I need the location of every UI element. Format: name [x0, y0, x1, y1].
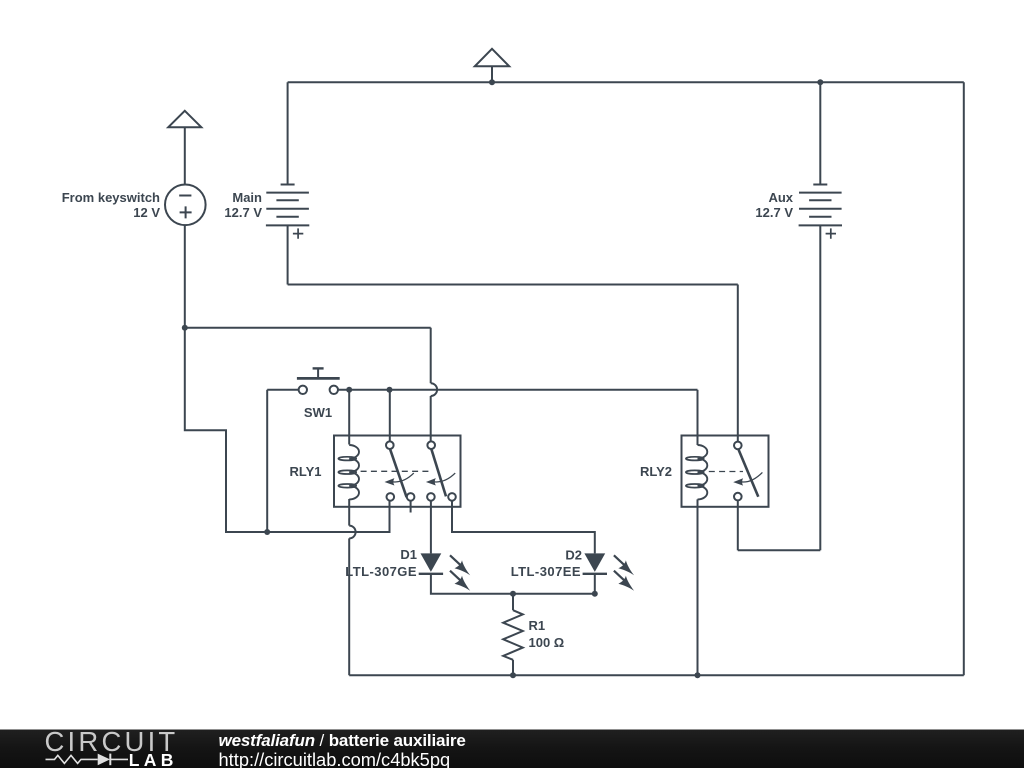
- RLY1 pins: [386, 441, 394, 449]
- footer logo squiggle: [46, 754, 129, 766]
- wire RLY1 coil bottom upper: [348, 499, 350, 526]
- wire SW1 left drop: [266, 390, 268, 532]
- wire Main to RLY2 common horizontal: [288, 284, 738, 286]
- wire bottom ground rail: [349, 674, 964, 676]
- battery Aux 12.7V: [799, 185, 842, 239]
- RLY2 dashed actuator line: [709, 471, 743, 473]
- wire hop over lower run: [349, 526, 355, 539]
- wire RLY2 contact to Aux: [738, 549, 821, 551]
- junction lower run: [264, 529, 270, 535]
- battery Main 12.7V: [266, 185, 309, 239]
- svg-text:LAB: LAB: [129, 750, 178, 768]
- LED D2: [583, 553, 635, 590]
- wire drop to switch B pin: [430, 396, 432, 441]
- wire switch B to D1: [430, 501, 432, 554]
- ground symbol top: [475, 49, 509, 82]
- RLY2 blade: [739, 450, 759, 497]
- pushbutton SW1: [297, 368, 340, 394]
- svg-text:LTL-307GE: LTL-307GE: [345, 564, 417, 579]
- svg-text:From keyswitch: From keyswitch: [62, 190, 160, 205]
- RLY1 dashed actuator line: [361, 470, 431, 472]
- wire SW1 right to RLY2 coil: [338, 389, 698, 391]
- svg-text:100 Ω: 100 Ω: [529, 635, 565, 650]
- wire D1 cathode to R1 node: [431, 574, 595, 594]
- svg-text:Aux: Aux: [768, 190, 793, 205]
- wire lower run to switch A pin: [267, 501, 389, 532]
- resistor R1: [503, 610, 523, 660]
- wire RLY1 coil bottom to rail: [348, 538, 350, 675]
- wire Main battery neg up: [287, 82, 289, 184]
- RLY2 arrow: [740, 472, 762, 482]
- svg-text:12.7 V: 12.7 V: [755, 205, 793, 220]
- wire drop to RLY1 switch B with hop: [430, 328, 432, 384]
- wire hop over SW1 line: [431, 383, 437, 396]
- svg-text:12.7 V: 12.7 V: [224, 205, 262, 220]
- wire keyswitch neg down: [184, 225, 186, 328]
- wire Main battery pos down: [287, 225, 289, 284]
- svg-text:westfaliafun / batterie auxili: westfaliafun / batterie auxiliaire: [219, 731, 466, 750]
- wire keyswitch step down: [185, 328, 267, 532]
- svg-text:D2: D2: [565, 548, 582, 563]
- svg-text:SW1: SW1: [304, 405, 332, 420]
- junction R1 top node: [510, 591, 516, 597]
- LED D1: [419, 553, 471, 590]
- svg-text:RLY2: RLY2: [640, 464, 672, 479]
- svg-text:LTL-307EE: LTL-307EE: [511, 564, 581, 579]
- RLY1 blade B: [431, 449, 446, 497]
- svg-text:12 V: 12 V: [133, 205, 160, 220]
- wire RLY2 common drop: [737, 285, 739, 442]
- relay RLY2: [682, 436, 769, 507]
- wire RLY2 coil bottom to rail: [697, 499, 699, 675]
- wire RLY2 contact down: [737, 500, 739, 550]
- junction aux top: [817, 79, 823, 85]
- svg-text:Main: Main: [232, 190, 262, 205]
- RLY2 pins: [734, 442, 742, 450]
- wire node key right: [185, 327, 431, 329]
- junction coil tap: [346, 387, 352, 393]
- wire RLY1 switch A top: [389, 390, 391, 442]
- svg-text:D1: D1: [400, 547, 417, 562]
- junction ground stem: [489, 79, 495, 85]
- svg-text:RLY1: RLY1: [289, 464, 321, 479]
- wire right edge down: [963, 82, 965, 675]
- wire RLY2 coil drop: [697, 390, 699, 445]
- wire D2 cathode down: [594, 574, 596, 594]
- wire Aux battery pos down: [819, 225, 821, 550]
- wire switch B NC to D2: [452, 501, 595, 554]
- ground symbol keyswitch: [168, 111, 201, 185]
- junction D2 bottom node: [592, 591, 598, 597]
- wire RLY1 coil top: [348, 390, 350, 445]
- wire R1 bottom lead: [512, 660, 514, 675]
- RLY2 coil: [698, 445, 708, 499]
- wire Aux battery neg up: [819, 82, 821, 184]
- junction keyswitch node: [182, 325, 188, 331]
- RLY1 blade A: [390, 449, 407, 497]
- voltage source V1 From keyswitch: [165, 185, 206, 226]
- wire switch A NC stub: [410, 501, 412, 513]
- footer bar: [0, 730, 1024, 768]
- junction R1 bottom rail: [510, 672, 516, 678]
- svg-text:http://circuitlab.com/c4bk5pq: http://circuitlab.com/c4bk5pq: [219, 749, 451, 768]
- relay RLY1: [334, 436, 461, 507]
- wire ground top rail: [288, 81, 964, 83]
- junction RLY2 coil rail: [695, 672, 701, 678]
- RLY1 coil: [349, 445, 359, 499]
- wire SW1 left: [267, 389, 298, 391]
- svg-text:R1: R1: [529, 618, 546, 633]
- RLY1 arrow B: [432, 473, 455, 482]
- junction switch A tap: [387, 387, 393, 393]
- RLY1 arrow A: [391, 473, 414, 482]
- wire R1 top lead: [512, 594, 514, 611]
